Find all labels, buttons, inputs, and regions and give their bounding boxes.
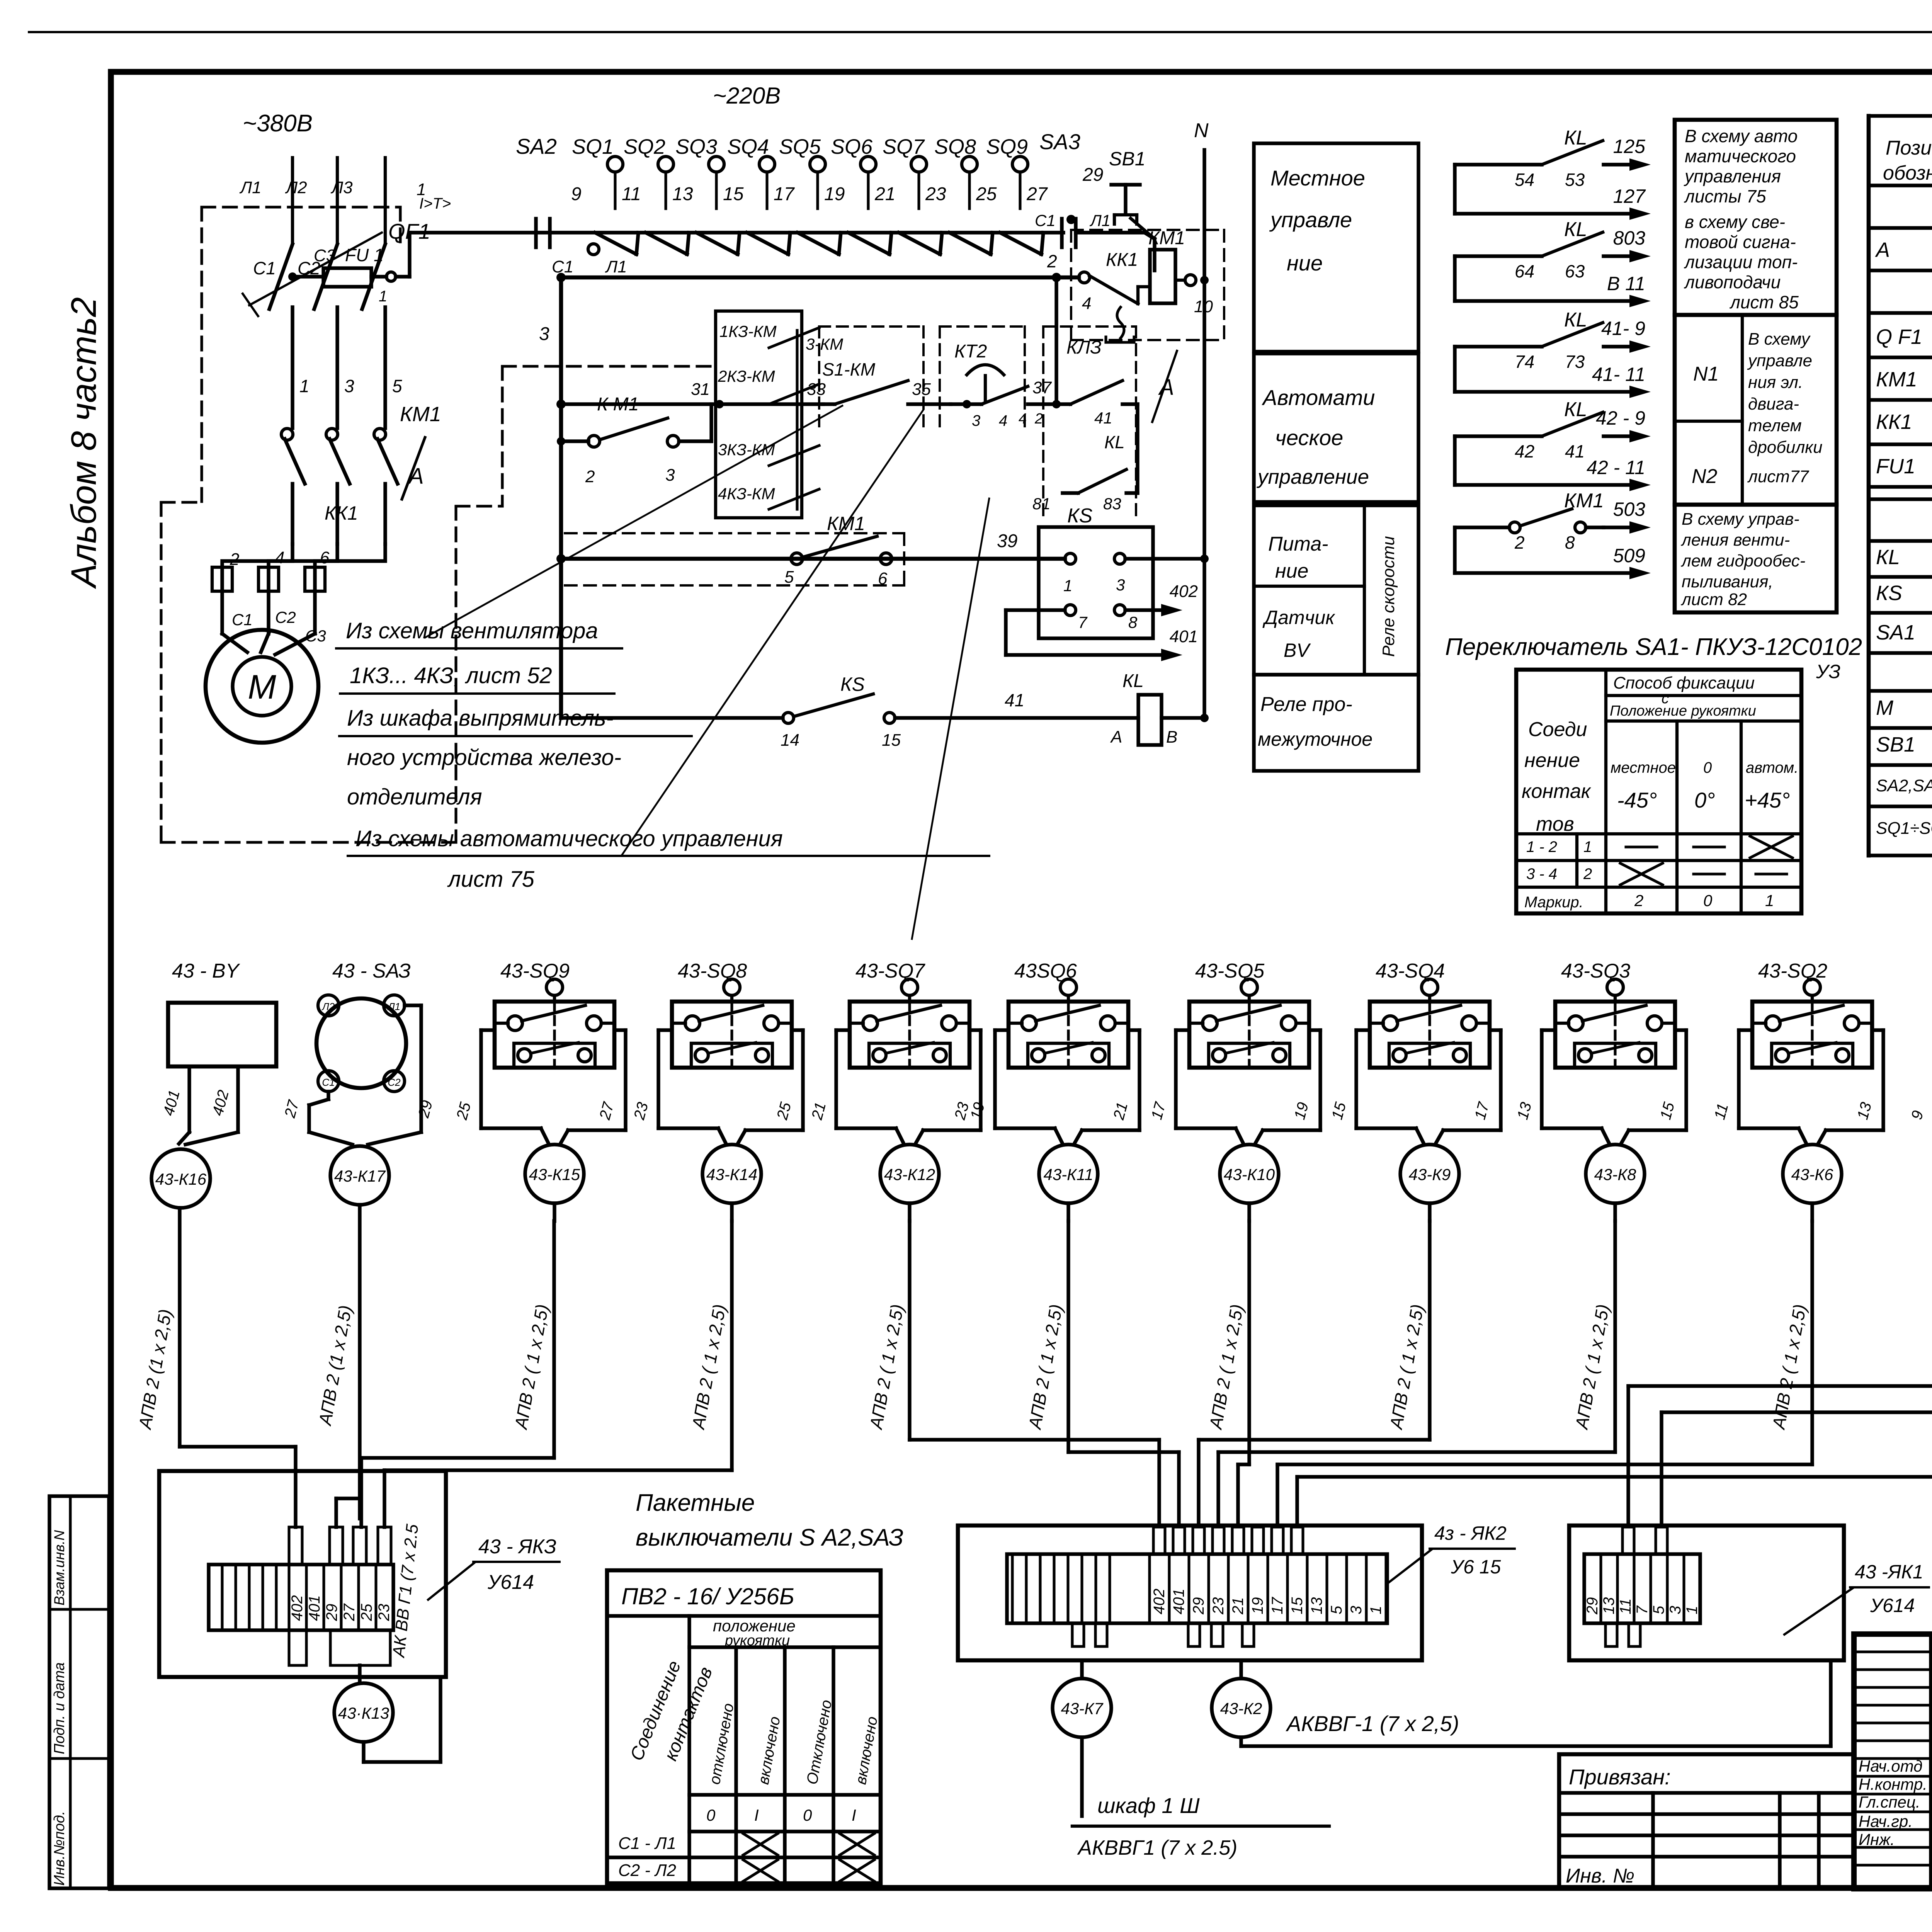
svg-text:43-К6: 43-К6: [1791, 1165, 1833, 1184]
svg-text:КS: КS: [840, 673, 865, 695]
contactor coil KM1: [1136, 287, 1139, 304]
svg-text:КМ1: КМ1: [827, 513, 865, 534]
svg-text:С1: С1: [322, 1077, 335, 1088]
callout A power section: [402, 437, 425, 499]
dashed box KL3 and KL: [1042, 327, 1044, 518]
function box: local control: [1254, 143, 1418, 352]
svg-text:5: 5: [392, 376, 402, 396]
svg-text:3: 3: [1348, 1606, 1365, 1614]
svg-text:Н.контр.: Н.контр.: [1859, 1775, 1927, 1793]
dashed box around KM1 holding contact: [565, 532, 904, 534]
svg-text:19: 19: [1249, 1597, 1266, 1615]
contact S1-KM: [823, 402, 835, 406]
svg-text:2: 2: [1583, 866, 1592, 883]
svg-text:А: А: [1158, 375, 1174, 400]
svg-text:КК1: КК1: [1106, 250, 1138, 270]
svg-text:Соеди: Соеди: [1528, 718, 1587, 741]
callout A near coil box: [1152, 351, 1177, 422]
svg-text:35: 35: [912, 380, 931, 399]
svg-text:21: 21: [874, 184, 895, 204]
svg-text:КS: КS: [1067, 505, 1093, 527]
svg-text:КS: КS: [1876, 582, 1902, 605]
svg-text:2: 2: [585, 467, 595, 486]
wires to tags K7 K2: [1080, 1660, 1083, 1679]
svg-text:КМ1: КМ1: [1876, 368, 1917, 391]
svg-text:Датчик: Датчик: [1262, 607, 1335, 628]
cable tag 43-K7: [1053, 1679, 1111, 1737]
svg-text:27: 27: [341, 1603, 358, 1621]
svg-text:У614: У614: [487, 1571, 534, 1594]
svg-text:в схему све-: в схему све-: [1685, 212, 1785, 232]
svg-text:5: 5: [1650, 1605, 1667, 1614]
svg-text:25: 25: [976, 184, 997, 204]
svg-text:отделителя: отделителя: [347, 784, 482, 810]
svg-text:13: 13: [1600, 1597, 1617, 1615]
svg-text:0°: 0°: [1694, 788, 1715, 812]
svg-text:401: 401: [1170, 627, 1198, 646]
svg-text:29: 29: [1584, 1597, 1601, 1615]
svg-text:КL: КL: [1104, 432, 1125, 452]
rung 41 with KS contact and KL coil: [561, 716, 783, 719]
svg-text:2: 2: [1034, 411, 1043, 427]
svg-text:1: 1: [1063, 577, 1072, 595]
bus node 3 vertical: [559, 277, 563, 718]
wire bundle to terminal block YaK1: [1628, 1384, 1932, 1388]
svg-text:23: 23: [925, 184, 946, 204]
cable tag 43-К14: [702, 1145, 761, 1203]
svg-text:Способ фиксации: Способ фиксации: [1613, 673, 1755, 692]
wire from SB1 down: [1145, 233, 1155, 239]
svg-text:1: 1: [379, 288, 387, 305]
wire from K13 looping right: [362, 1742, 365, 1762]
KZ contact box 1KZ-4KZ: [716, 311, 802, 518]
svg-text:Л2: Л2: [321, 1001, 335, 1012]
svg-text:Автомати: Автомати: [1262, 385, 1375, 410]
thermal contact KK1: [1079, 272, 1090, 283]
cable tag 43-К6: [1783, 1145, 1842, 1203]
wire from node 2 down: [1054, 277, 1058, 404]
svg-text:401: 401: [1170, 1588, 1187, 1614]
wire bundle to terminal block YaK3: [180, 1445, 296, 1448]
cable tag 43-К11: [1039, 1145, 1098, 1203]
cable from 43-К11: [1066, 1203, 1070, 1221]
svg-text:1: 1: [1684, 1606, 1701, 1614]
svg-text:товой сигна-: товой сигна-: [1685, 232, 1796, 252]
svg-text:Нач.гр.: Нач.гр.: [1859, 1812, 1913, 1830]
sheet outer thin border top: [29, 31, 1932, 33]
svg-text:КL: КL: [1876, 546, 1900, 569]
svg-text:С2 - Л2: С2 - Л2: [618, 1861, 676, 1880]
svg-text:ния эл.: ния эл.: [1748, 373, 1803, 392]
dashed box S1-KM: [818, 327, 820, 433]
svg-text:2: 2: [1514, 532, 1525, 553]
svg-text:43-К2: 43-К2: [1220, 1699, 1262, 1718]
cable from 43-К14: [730, 1203, 733, 1221]
svg-text:SQ4: SQ4: [727, 135, 769, 158]
svg-text:В: В: [1166, 728, 1177, 747]
svg-text:43 - SАЗ: 43 - SАЗ: [332, 960, 411, 982]
terminal lugs above strip YaK3: [289, 1527, 302, 1565]
svg-text:29: 29: [323, 1604, 340, 1622]
svg-text:Реле про-: Реле про-: [1260, 693, 1352, 716]
dashed enclosure KK1 KM1 coil: [1071, 229, 1224, 231]
svg-text:43-К12: 43-К12: [884, 1165, 935, 1184]
dashed box KT2: [939, 327, 941, 433]
svg-text:КL: КL: [1122, 671, 1144, 691]
svg-text:3: 3: [1667, 1606, 1684, 1614]
svg-text:SQ5: SQ5: [779, 135, 821, 158]
cable from 43-К8: [1613, 1203, 1617, 1221]
cable AKVVG-1 from K2 to YaK1: [1239, 1737, 1243, 1746]
svg-text:43 - ВY: 43 - ВY: [172, 960, 240, 982]
svg-text:SQ2: SQ2: [624, 135, 665, 158]
terminal block 43-YaK3 outer box: [159, 1471, 446, 1677]
svg-text:N2: N2: [1692, 465, 1718, 488]
cable tag 43-К15: [525, 1145, 584, 1203]
svg-text:С1 - Л1: С1 - Л1: [618, 1834, 676, 1853]
svg-text:КL: КL: [1564, 309, 1587, 331]
svg-text:39: 39: [997, 531, 1017, 551]
svg-text:УЗ: УЗ: [1816, 661, 1840, 682]
svg-text:74: 74: [1515, 352, 1534, 372]
svg-text:31: 31: [691, 380, 710, 399]
svg-text:43-SQ5: 43-SQ5: [1195, 960, 1265, 982]
svg-text:АКВВГ-1 (7 х 2,5): АКВВГ-1 (7 х 2,5): [1286, 1711, 1459, 1736]
wires from SA3 to tag: [405, 1003, 421, 1007]
svg-text:КК1: КК1: [1876, 410, 1912, 434]
svg-text:4: 4: [275, 548, 284, 567]
wire 1 from fuse to control bus: [396, 275, 410, 278]
svg-text:SA3: SA3: [1039, 129, 1080, 154]
svg-text:ние: ние: [1275, 560, 1308, 582]
svg-text:43-SQ7: 43-SQ7: [855, 960, 925, 982]
svg-text:SА2,SАЗ: SА2,SАЗ: [1876, 776, 1932, 795]
svg-text:83: 83: [1103, 495, 1121, 513]
svg-text:лист77: лист77: [1747, 467, 1809, 486]
title block frame: [1854, 1634, 1932, 1889]
svg-text:SQ8: SQ8: [934, 135, 976, 158]
svg-text:Положение рукоятки: Положение рукоятки: [1610, 703, 1756, 719]
terminal lugs above strip YaK2: [1153, 1527, 1165, 1554]
svg-text:1: 1: [1583, 838, 1592, 855]
SA1 fixation table: [1516, 670, 1801, 913]
svg-text:SА1: SА1: [1876, 621, 1915, 644]
svg-text:43-К9: 43-К9: [1409, 1165, 1451, 1184]
svg-text:4КЗ-КМ: 4КЗ-КМ: [718, 485, 775, 503]
svg-text:73: 73: [1565, 352, 1585, 372]
svg-text:Альбом 8 часть2: Альбом 8 часть2: [64, 297, 104, 589]
svg-text:+45°: +45°: [1745, 788, 1790, 812]
thermal relay KK1 heaters: [291, 484, 294, 544]
svg-text:управления: управления: [1684, 166, 1781, 186]
svg-text:803: 803: [1613, 227, 1646, 249]
svg-text:ления венти-: ления венти-: [1680, 531, 1790, 549]
svg-text:АКВВГ1 (7 х 2.5): АКВВГ1 (7 х 2.5): [1077, 1836, 1237, 1859]
cable from 43-К6: [1810, 1203, 1814, 1221]
svg-text:41: 41: [1005, 690, 1024, 710]
svg-text:1КЗ... 4КЗ, лист 52: 1КЗ... 4КЗ, лист 52: [350, 663, 552, 688]
svg-text:81: 81: [1032, 495, 1051, 513]
KM1 holding contact rung: [557, 437, 565, 446]
svg-text:4: 4: [1082, 294, 1091, 313]
svg-text:КК1: КК1: [325, 502, 358, 524]
svg-text:43-К17: 43-К17: [334, 1167, 386, 1185]
svg-text:43 -ЯК1: 43 -ЯК1: [1855, 1561, 1923, 1583]
svg-text:2: 2: [1634, 891, 1643, 910]
svg-text:64: 64: [1515, 261, 1534, 281]
cable tag 43-К10: [1220, 1145, 1279, 1203]
destination box: to hydro dedusting valves control sheet 82: [1675, 505, 1837, 612]
svg-text:местное: местное: [1611, 759, 1676, 776]
svg-text:3-КМ: 3-КМ: [806, 335, 843, 353]
svg-text:КL: КL: [1564, 218, 1587, 241]
cable from K17: [358, 1205, 361, 1519]
svg-text:матического: матического: [1685, 146, 1796, 166]
svg-text:выключатели S А2,SАЗ: выключатели S А2,SАЗ: [636, 1524, 903, 1551]
motor M: [222, 634, 247, 652]
wires of 43-SQ3: [1542, 1028, 1555, 1032]
svg-text:нение: нение: [1524, 749, 1580, 772]
svg-text:503: 503: [1613, 498, 1646, 520]
cable from 43-К9: [1428, 1203, 1431, 1221]
wires of 43-SQ7: [836, 1028, 850, 1032]
wires of 43SQ6: [995, 1028, 1009, 1032]
svg-text:15: 15: [882, 731, 901, 750]
svg-text:14: 14: [781, 731, 799, 750]
svg-text:Маркир.: Маркир.: [1524, 894, 1583, 911]
svg-text:~380В: ~380В: [243, 110, 313, 137]
wires of 43-SQ9: [481, 1028, 495, 1032]
svg-text:М: М: [248, 668, 276, 706]
control bus wire 1: [410, 231, 1063, 234]
svg-text:С2: С2: [388, 1077, 401, 1088]
svg-text:23: 23: [376, 1604, 393, 1622]
svg-text:3 - 4: 3 - 4: [1526, 866, 1557, 883]
wire KS pin3 to N: [1125, 557, 1204, 560]
svg-text:43-К10: 43-К10: [1224, 1165, 1275, 1184]
svg-text:обозн.: обозн.: [1883, 162, 1932, 184]
function box: intermediate relay: [1254, 675, 1418, 771]
svg-text:402: 402: [1170, 582, 1198, 601]
circuit breaker QF1: [269, 244, 293, 309]
terminal block 43-YaK2 outer box: [958, 1526, 1422, 1660]
svg-text:FU1: FU1: [1876, 455, 1915, 478]
svg-text:лист 75: лист 75: [447, 867, 535, 892]
svg-text:лист 82: лист 82: [1680, 590, 1747, 609]
svg-text:63: 63: [1565, 261, 1585, 281]
svg-text:509: 509: [1613, 545, 1645, 566]
contactor KM1 main contacts: [281, 429, 293, 440]
svg-text:4: 4: [1019, 411, 1027, 427]
svg-text:А: А: [1110, 728, 1122, 747]
cable from K16: [178, 1208, 181, 1447]
cable tag 43-К9: [1400, 1145, 1459, 1203]
svg-text:3: 3: [539, 324, 549, 344]
svg-text:13: 13: [1308, 1597, 1325, 1615]
svg-text:Местное: Местное: [1270, 166, 1365, 190]
wires of 43-SQ5: [1176, 1028, 1189, 1032]
cable tag 43-K2: [1212, 1679, 1270, 1737]
dashed enclosure of power feeder: [202, 206, 400, 208]
terminal lugs below strip YaK2: [1072, 1623, 1084, 1646]
svg-text:43-К8: 43-К8: [1594, 1165, 1636, 1184]
relay contact group КL -> 42 - 9/42 - 11: [1453, 436, 1456, 485]
fuse FU1: [293, 275, 323, 278]
svg-text:2КЗ-КМ: 2КЗ-КМ: [718, 367, 775, 385]
svg-text:А: А: [408, 464, 424, 489]
svg-text:А: А: [1875, 238, 1890, 262]
svg-text:43·К13: 43·К13: [338, 1704, 389, 1722]
wire 401 arrow: [1006, 608, 1065, 612]
svg-text:3: 3: [344, 376, 354, 396]
svg-text:15: 15: [723, 184, 744, 204]
svg-text:У614: У614: [1870, 1595, 1915, 1616]
svg-text:4: 4: [999, 412, 1007, 429]
parts table grid: [1869, 114, 1932, 117]
wire bundle to terminal block YaK2: [908, 1221, 911, 1440]
svg-text:двига-: двига-: [1748, 395, 1799, 413]
svg-text:1 - 2: 1 - 2: [1526, 838, 1557, 855]
svg-text:В схему авто: В схему авто: [1685, 126, 1798, 146]
limit switches SQ1..SQ9 blades and actuators: [607, 156, 623, 172]
svg-text:29: 29: [1082, 165, 1103, 185]
svg-text:управле: управле: [1269, 207, 1352, 232]
svg-text:контак: контак: [1522, 780, 1592, 803]
svg-text:43-К15: 43-К15: [529, 1165, 580, 1184]
svg-text:Пакетные: Пакетные: [636, 1490, 755, 1516]
svg-text:41: 41: [1094, 409, 1112, 427]
node: junction on phase C1: [288, 272, 297, 281]
svg-text:Привязан:: Привязан:: [1569, 1765, 1671, 1789]
svg-text:SQ3: SQ3: [675, 135, 717, 158]
svg-text:Инж.: Инж.: [1859, 1830, 1895, 1849]
cable from 43-К12: [908, 1203, 911, 1221]
svg-text:SA2: SA2: [516, 134, 557, 158]
svg-text:-45°: -45°: [1617, 788, 1657, 812]
svg-text:19: 19: [824, 184, 845, 204]
svg-text:29: 29: [1190, 1597, 1207, 1615]
svg-text:Q F1: Q F1: [1876, 325, 1922, 349]
svg-text:лем гидрообес-: лем гидрообес-: [1680, 551, 1805, 570]
svg-text:8: 8: [1128, 613, 1138, 631]
leader lines from notes: [425, 406, 842, 638]
svg-text:6: 6: [320, 548, 330, 567]
svg-text:402: 402: [1151, 1588, 1168, 1614]
contact KL below: [1136, 404, 1139, 493]
terminal lugs below strip YaK1: [1605, 1623, 1617, 1646]
cable tag 43-K16: [151, 1149, 210, 1208]
svg-text:В схему: В схему: [1748, 330, 1811, 349]
svg-text:Инв. №: Инв. №: [1566, 1865, 1634, 1887]
svg-text:9: 9: [571, 184, 582, 204]
svg-text:41: 41: [1565, 441, 1585, 461]
svg-text:43-К14: 43-К14: [706, 1165, 757, 1184]
svg-text:SQ6: SQ6: [831, 135, 873, 158]
svg-text:I: I: [852, 1806, 856, 1824]
svg-text:С1: С1: [1035, 211, 1056, 230]
svg-text:Из схемы автоматического управ: Из схемы автоматического управления: [355, 826, 783, 851]
svg-text:С2: С2: [275, 608, 296, 626]
svg-text:SB1: SB1: [1109, 148, 1146, 170]
svg-text:33: 33: [807, 380, 826, 399]
cable tag 43-K13: [334, 1683, 393, 1742]
svg-text:42 - 9: 42 - 9: [1596, 407, 1645, 429]
svg-text:1: 1: [417, 180, 426, 199]
svg-text:6: 6: [878, 569, 888, 588]
svg-text:1: 1: [1367, 1606, 1384, 1614]
svg-text:43-К11: 43-К11: [1043, 1165, 1093, 1184]
svg-text:SQ7: SQ7: [883, 135, 925, 158]
svg-text:11: 11: [622, 184, 641, 204]
svg-text:КТ2: КТ2: [954, 341, 987, 362]
terminal lugs below strip YaK3: [289, 1630, 306, 1665]
svg-text:Пита-: Пита-: [1268, 533, 1328, 555]
svg-text:Инв.№под.: Инв.№под.: [51, 1811, 68, 1886]
svg-text:КМ1: КМ1: [400, 403, 441, 426]
svg-text:С1: С1: [253, 258, 276, 278]
node on N bus: [1200, 276, 1209, 284]
svg-text:В схему управ-: В схему управ-: [1682, 510, 1799, 529]
svg-text:пыливания,: пыливания,: [1682, 572, 1773, 591]
destination cells N1 N2 to crusher motor control sheet 77: [1675, 315, 1837, 505]
svg-text:13: 13: [672, 184, 693, 204]
svg-text:автом.: автом.: [1746, 759, 1798, 776]
svg-text:Л2: Л2: [285, 178, 307, 197]
svg-text:SQ9: SQ9: [986, 135, 1028, 158]
svg-text:управле: управле: [1747, 351, 1812, 370]
svg-text:У6 15: У6 15: [1451, 1556, 1501, 1578]
svg-text:8: 8: [1565, 532, 1575, 553]
svg-text:7: 7: [1078, 613, 1088, 631]
svg-text:0: 0: [803, 1806, 812, 1824]
svg-text:127: 127: [1613, 185, 1646, 207]
svg-text:N: N: [1194, 119, 1209, 142]
wires of 43-SQ8: [658, 1028, 672, 1032]
svg-text:Л1: Л1: [387, 1001, 400, 1012]
function box: automatic control: [1254, 354, 1418, 502]
svg-text:1КЗ-КМ: 1КЗ-КМ: [719, 322, 777, 340]
svg-text:ного устройства железо-: ного устройства железо-: [347, 745, 621, 770]
svg-text:402: 402: [289, 1595, 306, 1621]
svg-text:SQ1: SQ1: [572, 135, 614, 158]
svg-text:11: 11: [1617, 1598, 1634, 1614]
svg-text:тов: тов: [1536, 813, 1574, 835]
svg-text:42 - 11: 42 - 11: [1587, 457, 1645, 478]
svg-text:41- 9: 41- 9: [1601, 318, 1645, 339]
table PV2-16/U256B: [607, 1570, 881, 1883]
svg-text:0: 0: [1703, 759, 1712, 776]
svg-text:53: 53: [1565, 170, 1585, 190]
svg-text:5: 5: [1328, 1605, 1345, 1614]
wire 402 arrow: [1125, 608, 1170, 612]
svg-text:КL: КL: [1564, 398, 1587, 421]
svg-text:Переключатель SА1- ПКУЗ-12С010: Переключатель SА1- ПКУЗ-12С0102: [1445, 634, 1862, 660]
bound box Privyazan: [1559, 1754, 1854, 1889]
svg-text:125: 125: [1613, 136, 1646, 157]
svg-text:межуточное: межуточное: [1258, 728, 1372, 750]
svg-text:0: 0: [1703, 891, 1713, 910]
svg-text:23: 23: [1210, 1597, 1227, 1615]
svg-text:41- 11: 41- 11: [1592, 364, 1645, 385]
svg-text:ческое: ческое: [1275, 425, 1343, 450]
svg-text:N1: N1: [1693, 363, 1719, 385]
svg-text:Подп. и дата: Подп. и дата: [51, 1662, 68, 1754]
svg-text:КМ1: КМ1: [1148, 228, 1185, 248]
relay contact group КL -> 125/127: [1453, 165, 1456, 214]
svg-text:Л1: Л1: [239, 178, 262, 197]
rung 2 horizontal: [561, 276, 1079, 280]
svg-text:4з - ЯК2: 4з - ЯК2: [1434, 1522, 1507, 1544]
